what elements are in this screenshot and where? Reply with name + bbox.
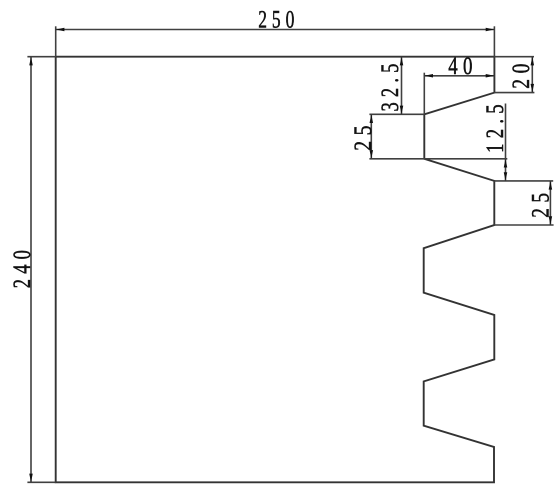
svg-text:40: 40 [448, 53, 478, 80]
extension line 25 right bottom [494, 224, 553, 226]
svg-text:25: 25 [350, 120, 377, 151]
extension line 25 left bottom and 12.5 top [369, 158, 507, 160]
extension line 25 right top [494, 180, 553, 182]
svg-text:25: 25 [527, 188, 554, 218]
svg-text:32.5: 32.5 [377, 58, 404, 111]
extension line 20 bottom [494, 92, 534, 94]
svg-text:250: 250 [258, 7, 299, 34]
dimension line 25 left [370, 114, 374, 159]
part outline [56, 57, 495, 483]
dimension line 12.5 [504, 104, 508, 181]
svg-text:240: 240 [9, 245, 36, 288]
extension line above 250 left [55, 26, 57, 56]
svg-text:12.5: 12.5 [482, 99, 509, 153]
dimension line 40 [424, 74, 494, 78]
dimension line 240 [29, 57, 33, 483]
dimension line 32.5 [400, 57, 404, 115]
extension line left of 240 bottom [27, 481, 55, 483]
extension line 32.5 bottom [369, 113, 424, 115]
extension line above 250 right [493, 26, 495, 56]
extension line 20 top [494, 56, 534, 58]
dimension line 25 right [549, 181, 553, 225]
svg-text:20: 20 [508, 58, 535, 89]
extension line 40 left [423, 73, 425, 115]
dimension line 250 [56, 28, 495, 32]
extension line left of 240 top [27, 56, 55, 58]
dimension line 20 [531, 57, 535, 93]
